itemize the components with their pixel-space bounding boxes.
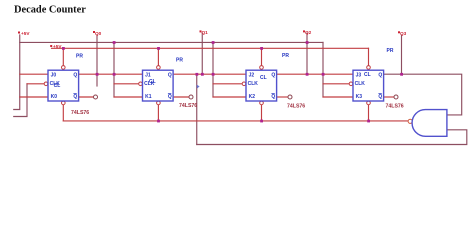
svg-text:CLK: CLK [248,81,259,87]
svg-text:74LS76: 74LS76 [287,104,305,110]
svg-text:J0: J0 [51,72,57,78]
svg-text:Decade Counter: Decade Counter [14,4,86,15]
svg-text:Q: Q [73,94,77,100]
svg-text:Q: Q [168,94,172,100]
svg-text:Q3: Q3 [400,31,407,36]
svg-text:74LS76: 74LS76 [386,104,404,110]
svg-text:Q: Q [378,72,382,78]
svg-text:+5V: +5V [21,31,30,36]
svg-text:Q0: Q0 [95,31,102,36]
svg-text:PR: PR [76,53,83,59]
svg-text:Q2: Q2 [305,30,312,35]
svg-text:Q: Q [271,72,275,78]
svg-text:PR: PR [282,53,289,59]
svg-text:K3: K3 [356,94,363,100]
svg-text:Q: Q [378,94,382,100]
svg-text:Q1: Q1 [202,30,209,35]
svg-text:K1: K1 [145,94,152,100]
svg-text:J1: J1 [145,72,151,78]
svg-text:J3: J3 [356,72,362,78]
svg-text:CLK: CLK [355,81,366,87]
svg-text:Q: Q [73,72,77,78]
svg-text:74LS76: 74LS76 [179,103,197,109]
svg-text:PR: PR [176,57,183,63]
svg-text:+5V: +5V [53,44,62,49]
svg-text:Q: Q [168,72,172,78]
svg-text:74LS76: 74LS76 [71,110,89,116]
svg-text:K0: K0 [51,94,58,100]
svg-text:CL: CL [364,72,371,78]
svg-text:PR: PR [387,48,394,54]
svg-text:K2: K2 [249,94,256,100]
svg-text:CL: CL [260,75,267,81]
svg-text:CL: CL [54,83,61,89]
svg-text:CL: CL [149,79,156,85]
svg-text:J2: J2 [249,72,255,78]
svg-text:Q: Q [271,94,275,100]
